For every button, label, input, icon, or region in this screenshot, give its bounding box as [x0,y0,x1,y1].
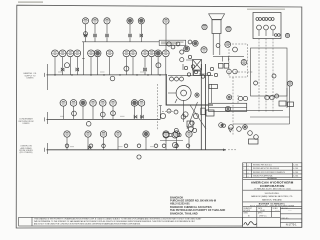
expansion tank risers [200,64,202,150]
riser from header 2 end [159,106,161,120]
signal line horizontal dashed [235,71,253,73]
instrument row1 #7 [106,50,113,57]
stem R1-7 [109,57,111,75]
circulating pump P1 [168,86,191,104]
fuel train header [213,55,244,57]
stem T2 [94,24,96,42]
gauge circle at x=181.5 [180,77,184,81]
instrument row2 #4 [90,100,97,107]
svg-text:REVISED AS NOTED RE-ISSUED: REVISED AS NOTED RE-ISSUED [253,167,280,170]
instrument near loop top [227,95,232,100]
heater top line [168,74,213,76]
skid fitting 2 [272,74,276,78]
collector stub header 1 [47,64,49,90]
stem T6 [165,24,167,50]
line number labels on headers [58,71,62,74]
fitting circle (175,135) [172,132,178,138]
fitting circle (231,127) [229,125,234,130]
svg-text:JPW Co.: JPW Co. [259,215,267,217]
svg-text:REVISED PER ECN 101: REVISED PER ECN 101 [253,165,272,167]
heater outlet component [209,85,218,89]
strainer boxes [187,121,193,127]
instrument top row #3 [104,18,110,24]
instrument row3 #6 [163,131,169,137]
fitting circle header3 x=126 [124,144,128,148]
fitting pump drain [174,128,178,132]
instrument top row #4 [127,18,133,24]
panel small 1 [275,34,278,37]
instrument row1 #10 [142,50,149,57]
circle symbol under row2 at x=74 [72,111,77,116]
gauge circle at x=176.5 [175,77,179,81]
heater fitting [201,75,204,78]
stem R2-4 [92,106,94,119]
svg-text:USERS: USERS [27,78,35,80]
fitting circle (190.9,128.9) [188,126,193,131]
valve on stem T5 [140,34,143,37]
svg-text:DWG NO.: DWG NO. [282,218,290,220]
instrument right of stack lower [225,42,231,48]
oil line vertical [289,86,291,124]
REVISIONS bar [243,178,302,180]
fitting circle (185.5,114.4) [183,112,188,117]
gas train block 1 [219,63,224,68]
instrument row2 #7 [131,100,138,107]
instrument inside loop [225,106,230,111]
instrument heater top a [188,40,192,44]
instrument row1 #1 [52,50,59,57]
svg-text:6-7-84: 6-7-84 [293,172,298,174]
skid fitting 3 [275,94,279,98]
equipment drain line [160,140,183,142]
project address block [170,195,225,215]
oil pump 2a [265,95,269,99]
instrument near burner 2 [192,40,198,46]
collector stub header 3 [47,143,49,154]
heater fitting [191,65,194,68]
panel lamp 2 [259,18,262,21]
instrument row3 #5 [143,131,149,137]
oil pump 2b [270,95,274,99]
svg-text:AND IS NOT TO BE USED FOR CONS: AND IS NOT TO BE USED FOR CONSTRUCTION P… [34,222,141,225]
valve on stem at x=145 [144,68,147,71]
panel lamp 5 [269,18,272,21]
instrument row1 #3 [67,50,74,57]
fitting circle header3 x=156 [154,144,158,148]
svg-text:BANGKOK, THAILAND: BANGKOK, THAILAND [170,211,198,215]
stem R3-7 [176,137,178,150]
fitting circle (196,116) [193,113,198,118]
stem R1-6 [97,57,99,75]
valve on header 3 [88,146,91,149]
instrument row2 #2 [70,100,77,107]
stem R2-2 [73,106,75,119]
pipe: overflow and drain header [47,149,227,151]
svg-text:6-7-84: 6-7-84 [293,176,298,178]
pipe: condensate return header [47,118,161,120]
short connectors in heater cluster [183,60,207,75]
fitting circle (245,127) [243,125,248,130]
skid fitting 1 [254,81,258,85]
stem R2-5 [102,106,104,119]
dashed instrument box [229,44,248,77]
valve on stem T3 [106,34,109,37]
stem R1-13 [165,57,167,75]
heater fitting [180,50,184,54]
instrument row1 #8 [123,50,130,57]
svg-text:CORPORATION: CORPORATION [260,184,285,188]
fitting circle (223.7,125.6) [222,124,225,127]
panel lamp 1 [256,18,259,21]
fitting circle (163,116) [160,113,165,118]
notes box [19,217,243,226]
svg-text:1: 1 [243,172,244,174]
instrument row3 #3 [100,131,106,137]
instrument row1 #2 [59,50,66,57]
panel lamp 6 [271,18,274,21]
stem T4 [129,24,131,42]
gauge circle at x=171.5 [170,77,174,81]
panel gauge at x=273 [271,25,276,30]
heater fitting x178 [176,42,180,46]
instrument row2 #6 [110,100,117,107]
stem R3-4 [117,137,119,150]
oil skid boundary box [251,48,288,96]
instrument row1 #5 [88,50,95,57]
stem R1-1 [54,57,56,75]
instrument row1 #11 [148,50,155,57]
heater fitting [188,55,191,58]
panel small 2 [278,34,281,37]
fitting circle header3 x=176.6 [175,144,179,148]
svg-text:REVISED FOR CUSTOMER COMMENTS: REVISED FOR CUSTOMER COMMENTS [253,172,286,174]
instrument right of gas train [241,60,247,66]
microfilm label strip [18,1,43,3]
dashed link to equipment [162,110,174,112]
oil heater boxes [279,101,286,106]
stem R2-1 [62,106,64,119]
drain symbol below header 3 [137,155,141,159]
stem T1 [85,24,87,42]
stem T3 [106,24,108,42]
small circle symbol [86,122,91,127]
heater fitting [180,58,184,62]
flue stack [209,14,225,55]
instrument top left of heater [167,42,171,46]
gas train block 2 [224,63,229,68]
small circle symbol [83,32,87,36]
svg-text:BURNER SCHEMATIC: BURNER SCHEMATIC [259,203,286,206]
oil supply horizontal lines [225,109,283,111]
heater fitting x173 [171,45,175,49]
stem R1-3 [69,57,71,75]
flange at header 1 start [44,73,46,77]
stem R3-1 [66,137,68,150]
panel lamp 4 [265,18,268,21]
gauge below pump [174,110,178,114]
approval signature [244,222,257,225]
instrument above gas train [233,47,238,52]
fitting pump discharge 1 [190,121,194,125]
pipe: heating oil supply header [47,74,167,76]
instrument row2 #5 [100,100,107,107]
circle symbol under row2 at x=102.8 [100,112,105,117]
pump suction diagonal [190,105,206,129]
stem R3-6 [165,137,167,150]
instrument row1 #9 [130,50,137,57]
heater fitting [214,73,217,76]
funnel drain [228,128,232,132]
fitting circle (166,135) [163,132,169,138]
small circle symbol [110,76,115,81]
instrument row1 #13 [162,50,169,57]
instrument right of stack upper [226,26,231,31]
stem R3-2 [87,137,89,150]
note text above panel [247,9,285,10]
on-pipe fittings header 1 [54,74,56,76]
second riser pair [208,76,210,103]
instrument top row #2 [92,18,98,24]
dashed battery limit left [157,84,159,130]
control valve circle at x=126.4 [124,66,129,71]
valve on stem at x=77.3 [76,68,79,71]
svg-text:3: 3 [243,165,244,167]
instrument row3 #1 [64,131,70,137]
instrument top row #6 [163,18,169,24]
svg-text:SULPHUR WELL: SULPHUR WELL [265,193,280,195]
stem R1-9 [132,57,134,75]
air set circle 2 [233,69,238,74]
instrument row3 #2 [85,131,91,137]
fitting circle header3 x=139 [137,144,141,148]
instrument near burner 3 [201,47,207,53]
number box lines [280,221,301,223]
instrument top right oil line [287,81,292,86]
instrument row1 #12 [155,50,162,57]
instrument row1 #6 [94,50,101,57]
instrument left of stack [202,24,207,29]
instrument top row #5 [138,18,144,24]
fitting circle (175,145) [172,142,177,147]
stem R1-8 [125,57,127,75]
heater fitting [184,66,187,69]
svg-text:6-7-84: 6-7-84 [293,168,298,170]
panel lamp 3 [262,18,265,21]
stem R1-4 [76,57,78,75]
stem R1-11 [151,57,153,75]
svg-text:MC-0578: MC-0578 [243,210,250,212]
instrument row1 #4 [74,50,81,57]
loop outline [209,103,247,111]
companion circle b [178,133,181,136]
svg-text:N-1775-1: N-1775-1 [286,223,297,227]
svg-text:—..—: —..— [275,210,279,212]
wire: top branch pipe [82,41,159,43]
flange at header 3 start [44,148,46,152]
instrument row2 #3 [80,100,87,107]
control valve circle at x=158.4 [156,63,161,68]
stem R3-5 [145,137,147,150]
fitting below boundary [167,109,171,113]
stem R1-12 [157,57,159,75]
fitting circle (239,129) [237,127,242,132]
svg-text:0: 0 [243,176,244,178]
gate valve on header 2 at x=135.5 [134,115,137,118]
heater fitting [207,72,210,75]
stem R2-3 [82,106,84,119]
arrow end header 3 [223,149,226,152]
panel gauge at x=259 [257,25,262,30]
instrument row3 #8 [186,131,192,137]
instrument near burner 1 [184,46,190,52]
stem R2-7 [134,106,136,119]
instrument top row #1 [82,18,88,24]
oil pump 1a [238,96,242,100]
heater room boundary wall [166,74,213,105]
svg-text:BANGKOK (SIAM) CHEMICAL FACILI: BANGKOK (SIAM) CHEMICAL FACILITIES, LTD. [251,195,293,198]
stem R2-6 [112,106,114,119]
burner assembly [193,60,202,71]
air set circle 1 [227,69,232,74]
instrument right of panel [285,33,289,37]
svg-text:1-8-84: 1-8-84 [260,210,265,212]
pump discharge diagonal [187,102,198,129]
svg-text:W.O. NO.: W.O. NO. [282,208,289,210]
dark fitting right of pump [195,93,199,97]
circle symbol under row2 at x=113 [111,111,116,116]
svg-text:2: 2 [243,168,244,170]
fitting circle header3 x=164 [162,144,166,148]
svg-text:—.—: —.— [288,210,292,212]
oil pump 1b [243,96,247,100]
instrument row3 #4 [115,131,121,137]
valve on stem T4 [129,34,132,37]
fitting pump discharge 2 [193,128,197,132]
heater fitting [187,73,190,76]
heater fitting [194,70,197,73]
companion circle a [169,133,172,136]
valve on stem T2 [94,34,97,37]
stem R3-3 [103,137,105,150]
svg-text:BANGKOK, THAILAND: BANGKOK, THAILAND [262,198,282,201]
wire: top branch drop to header1 [82,42,84,75]
valve on stem T1 [84,34,87,37]
panel gauge at x=266 [264,25,269,30]
stem R1-2 [62,57,64,75]
info cells [243,210,281,212]
svg-text:6-7-84: 6-7-84 [293,165,298,167]
tick on riser [82,58,84,60]
instrument row2 #1 [60,100,67,107]
fitting circle header3 x=91 [89,144,93,148]
fitting circle header3 x=188 [186,144,190,148]
flange at header 2 start [44,117,46,121]
stem R1-10 [144,57,146,75]
collector stub header 2 [47,112,49,124]
control valve circle at x=67 [65,63,70,68]
instrument row3 #7 [173,131,179,137]
fitting circle header3 x=67 [65,144,69,148]
instrument row2 #8 [138,100,145,107]
fitting circle (183.3,116.9) [181,115,185,119]
fitting circle (256,137) [254,135,259,140]
label box on top pipe [159,40,186,45]
stem R3-8 [188,137,190,150]
heater fitting [210,67,213,70]
valve on stem at x=62.6 [61,68,64,71]
control panel [253,13,281,39]
svg-text:(BY OTHERS): (BY OTHERS) [20,152,33,154]
panel signal lines dashed [258,39,260,113]
fitting circle header3 x=103.5 [102,144,106,148]
fitting circle (221,125) [219,123,224,128]
gate valve on header 2 at x=142 [141,115,144,118]
stem R2-8 [141,106,143,119]
instrument heater top b [216,44,220,48]
svg-text:USERS: USERS [23,123,31,125]
fitting circle (250,133) [248,131,253,136]
stem R1-5 [90,57,92,75]
stem T5 [140,24,142,42]
title block [243,163,302,228]
